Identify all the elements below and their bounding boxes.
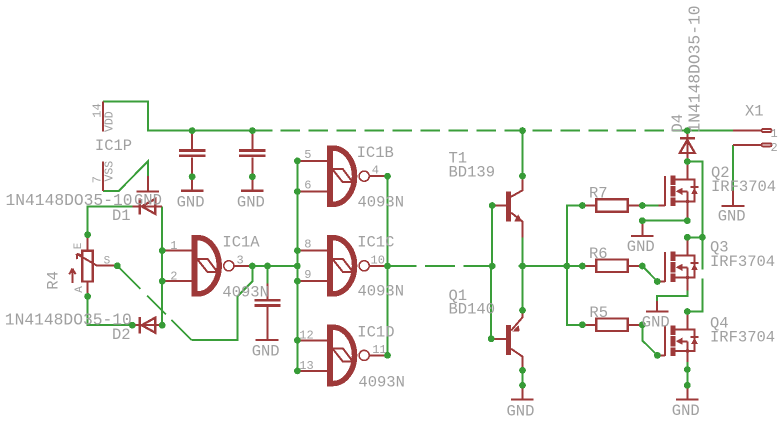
svg-text:R4: R4 bbox=[45, 271, 63, 290]
svg-text:VSS: VSS bbox=[104, 161, 117, 182]
svg-text:8: 8 bbox=[304, 237, 311, 251]
svg-text:1: 1 bbox=[771, 127, 778, 141]
svg-text:4093N: 4093N bbox=[358, 373, 405, 391]
svg-text:S: S bbox=[104, 255, 111, 267]
svg-text:10: 10 bbox=[371, 254, 385, 268]
svg-text:R6: R6 bbox=[589, 245, 608, 263]
svg-text:IC1C: IC1C bbox=[357, 233, 394, 251]
svg-text:BD139: BD139 bbox=[449, 163, 496, 181]
svg-text:4093N: 4093N bbox=[222, 284, 269, 302]
svg-text:IC1P: IC1P bbox=[95, 137, 132, 155]
svg-text:BD140: BD140 bbox=[449, 300, 496, 318]
svg-text:IC1B: IC1B bbox=[357, 144, 394, 162]
svg-text:4: 4 bbox=[372, 164, 379, 178]
svg-text:GND: GND bbox=[237, 193, 265, 211]
svg-text:11: 11 bbox=[372, 343, 386, 357]
svg-text:12: 12 bbox=[299, 329, 313, 343]
svg-text:R5: R5 bbox=[589, 304, 608, 322]
svg-text:A: A bbox=[74, 286, 86, 293]
svg-text:GND: GND bbox=[507, 403, 535, 421]
svg-text:GND: GND bbox=[134, 192, 162, 210]
svg-text:IRF3704: IRF3704 bbox=[710, 329, 775, 347]
svg-text:3: 3 bbox=[237, 253, 244, 267]
svg-text:D2: D2 bbox=[112, 326, 131, 344]
svg-text:GND: GND bbox=[252, 343, 280, 361]
svg-text:E: E bbox=[73, 242, 85, 249]
svg-text:VDD: VDD bbox=[104, 111, 117, 132]
svg-text:D4: D4 bbox=[669, 114, 687, 133]
svg-text:1: 1 bbox=[170, 239, 177, 253]
svg-text:2: 2 bbox=[771, 141, 778, 155]
svg-text:GND: GND bbox=[642, 313, 670, 331]
svg-text:R7: R7 bbox=[589, 185, 608, 203]
svg-text:GND: GND bbox=[627, 238, 655, 256]
svg-text:GND: GND bbox=[718, 208, 746, 226]
svg-text:4093N: 4093N bbox=[358, 283, 405, 301]
svg-text:GND: GND bbox=[672, 402, 700, 420]
svg-text:X1: X1 bbox=[745, 103, 764, 121]
svg-text:9: 9 bbox=[304, 268, 311, 282]
svg-text:5: 5 bbox=[304, 148, 311, 162]
svg-text:2: 2 bbox=[170, 269, 177, 283]
svg-text:4093N: 4093N bbox=[358, 193, 405, 211]
svg-text:GND: GND bbox=[177, 193, 205, 211]
svg-text:14: 14 bbox=[90, 103, 104, 117]
svg-text:1N4148DO35-10: 1N4148DO35-10 bbox=[686, 5, 705, 132]
svg-text:D1: D1 bbox=[112, 207, 131, 225]
svg-text:7: 7 bbox=[90, 176, 104, 183]
svg-text:13: 13 bbox=[299, 359, 313, 373]
svg-text:6: 6 bbox=[304, 179, 311, 193]
svg-text:IRF3704: IRF3704 bbox=[710, 253, 775, 271]
svg-text:IC1A: IC1A bbox=[222, 233, 260, 251]
svg-text:IC1D: IC1D bbox=[357, 324, 394, 342]
svg-text:IRF3704: IRF3704 bbox=[711, 178, 776, 196]
